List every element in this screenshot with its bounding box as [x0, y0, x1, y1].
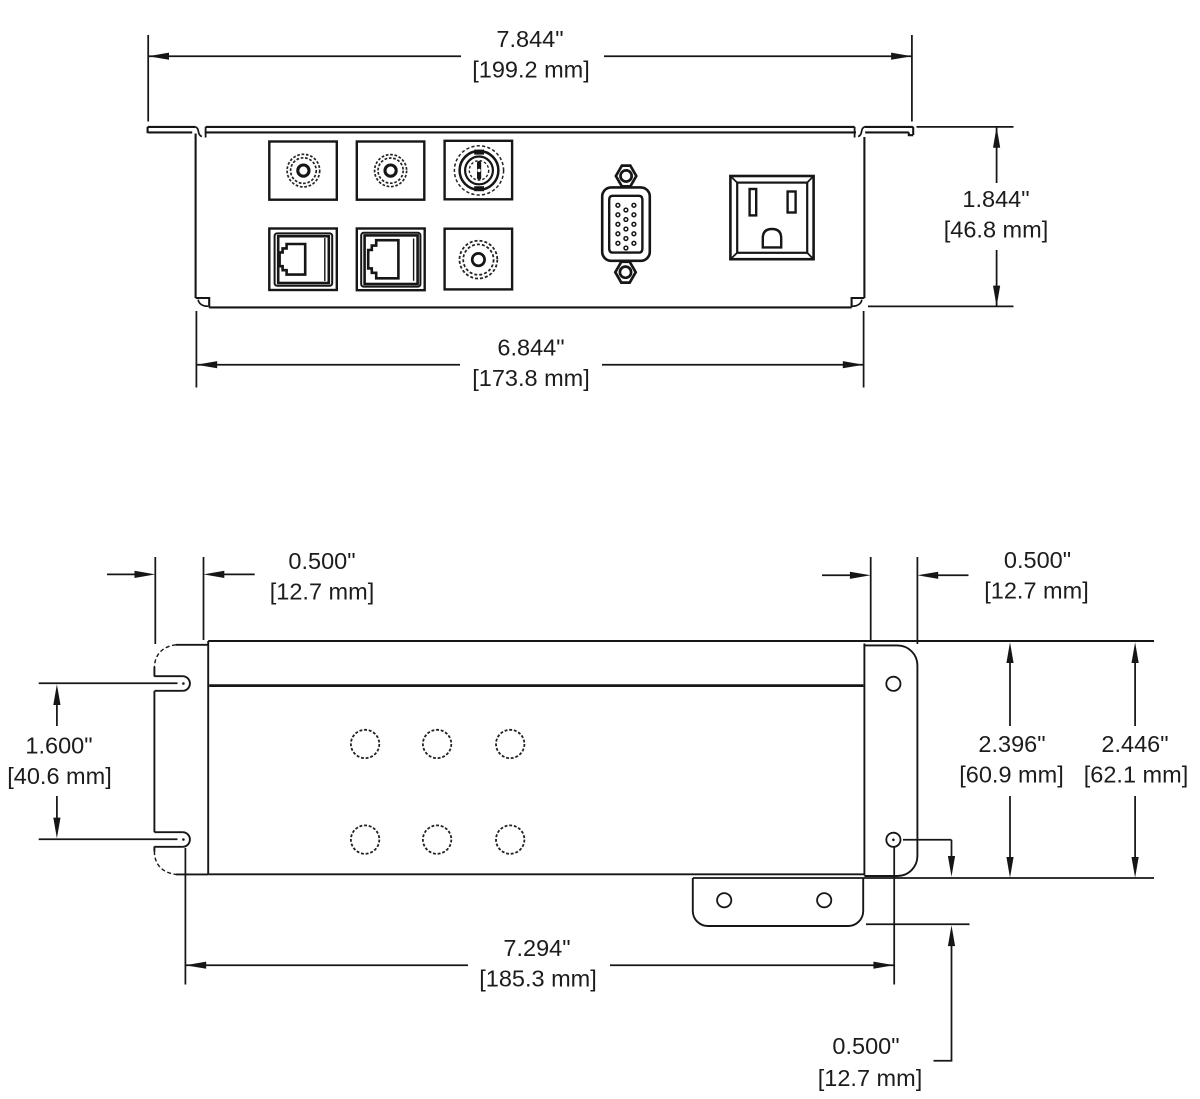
RJ45 jack body	[361, 233, 420, 287]
dim 2.446 dimension line + arrows	[1134, 663, 1136, 726]
dim 1.600 dimension line + arrows	[56, 704, 58, 726]
dim 0.500 bottom-right tab-bottom extension	[866, 923, 970, 925]
bottom tab top edge / extension to right	[693, 877, 1154, 879]
enclosure body top edge (extends right as extension line)	[208, 640, 1154, 642]
RJ45 jack plate	[357, 229, 425, 291]
VGA connector U1 shell	[609, 196, 642, 253]
faceplate corner relief (right)	[852, 300, 862, 307]
dim 7.844 extension line right	[911, 35, 913, 122]
dim 6.844 extension line right	[863, 311, 865, 388]
dim 6.844 extension line left	[195, 311, 197, 388]
left channel bottom slot	[154, 832, 190, 847]
dim 6.844 dimension line	[196, 364, 460, 366]
svg-text:2.396": 2.396"	[978, 731, 1045, 757]
dim 0.500 top-right arrows	[822, 574, 850, 576]
svg-text:1.600": 1.600"	[25, 733, 92, 759]
dim 7.844 dimension line	[148, 55, 461, 57]
svg-text:6.844": 6.844"	[497, 335, 564, 361]
left channel top slot	[154, 676, 190, 691]
RJ11 jack plate	[269, 229, 337, 291]
F connector plate	[445, 229, 512, 290]
RCA connector A2 plate	[357, 142, 425, 200]
VGA connector U1 top nut	[616, 166, 636, 187]
AC outlet inner face	[737, 183, 807, 253]
dim 0.500 top-left extension lines	[154, 557, 156, 644]
dim 0.500 top-right extension lines	[870, 557, 872, 640]
right wing lower hole	[886, 833, 900, 847]
dim 0.500 bottom-right hole extension	[903, 839, 952, 841]
svg-text:0.500": 0.500"	[288, 548, 355, 574]
right mounting wing outline	[864, 645, 917, 876]
faceplate outline (top view)	[196, 134, 865, 308]
right wing upper hole	[886, 677, 900, 691]
dim 1.844 dimension line	[996, 127, 998, 183]
svg-text:[46.8 mm]: [46.8 mm]	[944, 217, 1048, 243]
dim 7.294 dimension line	[185, 964, 468, 966]
enclosure body right edge	[863, 644, 865, 876]
svg-text:7.294": 7.294"	[503, 935, 570, 961]
svg-text:[12.7 mm]: [12.7 mm]	[270, 579, 374, 605]
svg-text:7.844": 7.844"	[496, 26, 563, 52]
svg-text:[40.6 mm]: [40.6 mm]	[7, 763, 111, 789]
F connector rings	[460, 241, 498, 279]
bottom tab holes	[717, 893, 731, 907]
flange break squiggle (left)	[195, 127, 202, 137]
dim 2.396 dimension line + arrows	[1009, 663, 1011, 726]
svg-text:0.500": 0.500"	[1004, 547, 1071, 573]
dim 1.600 extension lines	[39, 682, 178, 684]
svg-text:[12.7 mm]: [12.7 mm]	[984, 578, 1088, 604]
dim 0.500 bottom-right up arrow	[934, 946, 952, 1061]
VGA connector U1 bottom nut	[615, 262, 635, 283]
dim 7.294 extension lines	[184, 848, 186, 985]
AC outlet neutral slot	[750, 189, 757, 215]
flange break squiggle (right)	[858, 127, 865, 137]
six clearance holes	[351, 730, 525, 854]
bottom tab outline	[693, 878, 863, 926]
AC outlet ground hole	[763, 229, 781, 247]
enclosure body left edge	[207, 641, 209, 874]
svg-text:[173.8 mm]: [173.8 mm]	[472, 365, 590, 391]
dim 1.844 extension lines	[917, 126, 1014, 128]
VGA connector U1 body	[602, 187, 650, 260]
BNC connector plate	[445, 141, 512, 200]
AC outlet hot slot	[788, 192, 796, 213]
BNC connector body	[454, 146, 503, 195]
svg-text:[185.3 mm]: [185.3 mm]	[479, 966, 597, 992]
svg-text:2.446": 2.446"	[1101, 731, 1168, 757]
left channel corner arc (bottom, phantom)	[153, 846, 155, 851]
svg-text:[60.9 mm]: [60.9 mm]	[959, 762, 1063, 788]
svg-text:1.844": 1.844"	[962, 186, 1029, 212]
divider line across body	[209, 684, 863, 687]
VGA connector U1 pins	[616, 203, 636, 250]
faceplate corner relief (left)	[198, 300, 208, 307]
svg-text:[199.2 mm]: [199.2 mm]	[472, 57, 590, 83]
AC outlet corner bevels	[731, 177, 812, 258]
dim 0.500 bottom-right down arrow	[951, 840, 953, 856]
RCA connector A1 rings	[287, 154, 320, 187]
AC outlet outer plate	[730, 176, 813, 259]
enclosure body bottom edge	[208, 873, 864, 875]
mounting flange (top view, horizontal strip)	[148, 127, 914, 135]
RCA connector A2 rings	[375, 155, 407, 187]
svg-text:0.500": 0.500"	[832, 1033, 899, 1059]
RJ11 jack body	[275, 233, 333, 285]
left mounting channel outline	[154, 645, 208, 875]
svg-text:[12.7 mm]: [12.7 mm]	[818, 1065, 922, 1091]
dim 7.844 extension line left	[147, 35, 149, 122]
dim 0.500 top-left arrows	[107, 573, 135, 575]
svg-text:[62.1 mm]: [62.1 mm]	[1084, 762, 1188, 788]
RCA connector A1 plate	[269, 142, 337, 200]
left channel corner arc (top, phantom)	[154, 645, 176, 668]
